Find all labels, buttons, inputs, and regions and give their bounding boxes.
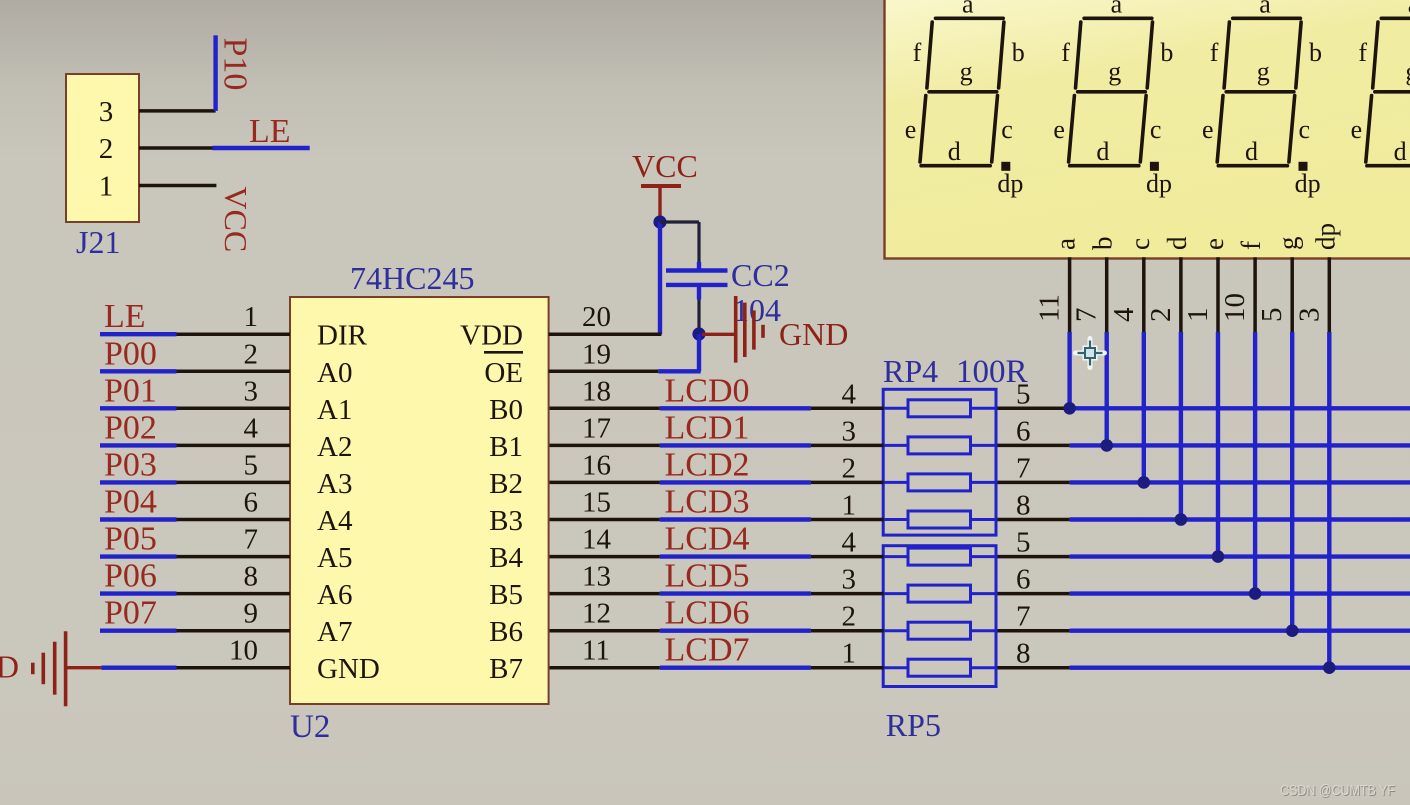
U2 pin 12 stub: [549, 629, 660, 633]
resistor R2 of RP4/RP5: [883, 437, 996, 454]
wire GND net blue: [101, 666, 176, 670]
svg-text:P06: P06: [104, 558, 157, 595]
U2 pin 13 stub: [549, 592, 660, 596]
svg-text:GND: GND: [317, 653, 380, 685]
svg-text:LCD2: LCD2: [665, 446, 750, 483]
svg-text:2: 2: [842, 601, 857, 633]
svg-text:4: 4: [842, 378, 857, 410]
wire RP output row 8 blue net: [1070, 666, 1410, 670]
digit 3 decimal point: [1299, 162, 1308, 171]
resistor R1 of RP4/RP5: [883, 400, 996, 417]
svg-text:1: 1: [1182, 308, 1214, 323]
svg-text:74HC245: 74HC245: [350, 260, 474, 296]
wire RP output row 1 blue net: [1070, 406, 1410, 410]
resistor R7 of RP4/RP5: [883, 622, 996, 639]
RP input pin stub row 7: [811, 629, 884, 633]
wire RP output row 7 black stub: [997, 629, 1069, 633]
svg-text:6: 6: [1016, 415, 1031, 447]
svg-text:P00: P00: [104, 335, 157, 372]
svg-text:dp: dp: [997, 169, 1023, 198]
svg-text:8: 8: [1016, 490, 1031, 522]
svg-text:DIR: DIR: [317, 320, 368, 352]
digit 2 decimal point: [1150, 162, 1159, 171]
svg-text:c: c: [1125, 238, 1155, 250]
svg-text:LCD7: LCD7: [665, 632, 750, 669]
svg-text:7: 7: [1016, 601, 1031, 633]
U2 pin 18 stub: [549, 407, 660, 411]
svg-text:3: 3: [842, 564, 857, 596]
svg-text:A6: A6: [317, 579, 352, 611]
wire net P01: [100, 406, 177, 410]
wire RP output row 2 blue net: [1070, 443, 1410, 447]
svg-text:P07: P07: [104, 595, 157, 632]
svg-text:2: 2: [842, 452, 857, 484]
svg-text:11: 11: [1034, 294, 1066, 322]
wire net P00: [100, 369, 177, 373]
wire LCD5 net blue: [660, 591, 811, 595]
digit 4 segment a: [1381, 16, 1410, 20]
wire RP output row 5 black stub: [997, 555, 1069, 559]
wire RP output row 7 blue net: [1070, 629, 1410, 633]
digit 4 segment e: [1366, 96, 1372, 163]
U2 pin 19 stub: [549, 370, 659, 374]
svg-text:LCD5: LCD5: [665, 558, 750, 595]
wire segment net seg-c vertical: [1142, 332, 1146, 482]
resistor R8 of RP4/RP5: [883, 659, 996, 676]
junction dot row 7: [1286, 624, 1299, 637]
svg-text:f: f: [1061, 38, 1070, 67]
display pin stub e: [1216, 257, 1220, 332]
wire segment net seg-e vertical: [1216, 332, 1220, 557]
svg-text:15: 15: [582, 487, 611, 519]
svg-text:B6: B6: [489, 616, 523, 648]
resistor R5 of RP4/RP5: [883, 548, 996, 565]
digit 3 segment c: [1289, 96, 1295, 163]
svg-text:20: 20: [582, 301, 611, 333]
svg-text:8: 8: [244, 561, 259, 593]
svg-text:c: c: [1299, 115, 1311, 144]
svg-text:g: g: [1257, 57, 1270, 86]
svg-text:P04: P04: [104, 484, 157, 521]
svg-text:5: 5: [1016, 378, 1031, 410]
svg-text:LE: LE: [104, 298, 146, 335]
7-seg digit 2: [1053, 0, 1173, 198]
svg-text:VDD: VDD: [460, 320, 523, 352]
U2 left pin 6 stub: [177, 518, 291, 522]
svg-text:P10: P10: [217, 38, 254, 91]
digit 1 segment a: [936, 16, 1004, 20]
svg-text:A5: A5: [317, 542, 352, 574]
power symbol VCC: [641, 186, 681, 216]
digit 1 segment f: [927, 22, 932, 88]
wire segment net seg-g vertical: [1290, 332, 1294, 631]
wire RP output row 1 black stub: [997, 407, 1069, 411]
svg-text:a: a: [1259, 0, 1271, 19]
svg-text:J21: J21: [76, 224, 120, 260]
digit 3 segment f: [1224, 22, 1229, 88]
wire VCC to U2 pin20 vertical: [658, 222, 662, 334]
svg-text:GND: GND: [779, 316, 848, 352]
display module box DS1: [885, 0, 1410, 259]
svg-text:B3: B3: [489, 505, 523, 537]
svg-text:P02: P02: [104, 409, 157, 446]
resistor pack RP5 box: [883, 546, 996, 687]
wire junction to U2 pin19: [697, 334, 701, 371]
svg-text:LCD4: LCD4: [665, 521, 750, 558]
wire net P03: [100, 480, 177, 484]
wire junction to ground: [702, 333, 734, 336]
wire RP output row 6 black stub: [997, 592, 1069, 596]
digit 2 segment b: [1147, 22, 1152, 88]
svg-text:3: 3: [99, 96, 114, 128]
svg-text:2: 2: [1145, 308, 1177, 323]
wire RP output row 4 black stub: [997, 518, 1069, 522]
svg-text:LCD3: LCD3: [665, 484, 750, 521]
svg-text:7: 7: [1016, 452, 1031, 484]
U2 pin 14 stub: [549, 555, 660, 559]
digit 3 segment b: [1296, 22, 1301, 88]
svg-text:3: 3: [1293, 308, 1325, 323]
junction dot row 8: [1323, 661, 1336, 674]
U2 left pin 10 stub: [177, 666, 291, 670]
digit 4 segment g: [1375, 90, 1410, 94]
svg-text:1: 1: [99, 171, 114, 203]
svg-text:dp: dp: [1146, 169, 1172, 198]
U2 left pin 5 stub: [177, 481, 291, 485]
junction dot row 3: [1138, 476, 1151, 489]
junction dot row 5: [1212, 550, 1225, 563]
RP input pin stub row 1: [811, 407, 884, 411]
junction dot at CC2 bottom: [692, 327, 705, 340]
svg-text:c: c: [1001, 115, 1013, 144]
wire RP output row 3 blue net: [1070, 480, 1410, 484]
svg-text:5: 5: [1256, 308, 1288, 323]
wire CC2 bottom to junction: [697, 287, 701, 328]
RP input pin stub row 4: [811, 518, 884, 522]
U2 left pin 4 stub: [177, 444, 291, 448]
svg-text:B4: B4: [489, 542, 523, 574]
display pin stub a: [1068, 257, 1072, 332]
RP input pin stub row 6: [811, 592, 884, 596]
svg-text:VCC: VCC: [632, 148, 698, 184]
svg-text:LCD1: LCD1: [665, 409, 750, 446]
U2 pin 17 stub: [549, 444, 660, 448]
display pin stub g: [1290, 257, 1294, 332]
display pin stub f: [1253, 257, 1257, 332]
svg-text:B0: B0: [489, 394, 523, 426]
RP input pin stub row 5: [811, 555, 884, 559]
svg-text:13: 13: [582, 561, 611, 593]
U2 pin 20 stub: [549, 332, 662, 336]
svg-text:dp: dp: [1295, 169, 1321, 198]
wire LCD3 net blue: [660, 517, 811, 521]
svg-text:A3: A3: [317, 468, 352, 500]
wire RP output row 5 blue net: [1070, 554, 1410, 558]
svg-text:LCD6: LCD6: [665, 595, 750, 632]
U2 left pin 9 stub: [177, 629, 291, 633]
svg-text:CC2: CC2: [731, 257, 790, 293]
J21 pin 3 stub: [139, 109, 216, 113]
7-seg digit 3: [1202, 0, 1322, 198]
svg-text:16: 16: [582, 449, 611, 481]
svg-text:18: 18: [582, 375, 611, 407]
svg-text:9: 9: [244, 598, 259, 630]
svg-text:6: 6: [1016, 564, 1031, 596]
svg-text:10: 10: [229, 635, 258, 667]
digit 1 segment b: [999, 22, 1004, 88]
ground symbol at CC2: [736, 296, 763, 363]
U2 left pin 8 stub: [177, 592, 291, 596]
svg-text:e: e: [1053, 115, 1065, 144]
digit 2 segment c: [1140, 96, 1146, 163]
svg-text:d: d: [1245, 137, 1258, 166]
U2 left pin 7 stub: [177, 555, 291, 559]
svg-text:g: g: [960, 57, 973, 86]
svg-text:17: 17: [582, 412, 611, 444]
7-seg digit 1: [905, 0, 1025, 198]
J21 pin 1 stub: [139, 184, 216, 188]
svg-text:2: 2: [99, 133, 114, 165]
digit 1 segment c: [992, 96, 998, 163]
digit 4 segment d: [1367, 164, 1410, 168]
svg-text:f: f: [1236, 241, 1266, 250]
svg-text:LCD0: LCD0: [665, 372, 750, 409]
wire LCD2 net blue: [660, 480, 811, 484]
svg-text:LE: LE: [249, 113, 291, 150]
digit 3 segment a: [1233, 16, 1301, 20]
U2 pin 15 stub: [549, 518, 660, 522]
svg-text:RP4: RP4: [883, 353, 938, 389]
digit 2 segment a: [1084, 16, 1152, 20]
digit 1 segment g: [929, 90, 997, 94]
svg-text:104: 104: [733, 292, 781, 328]
U2 left pin 1 stub: [177, 332, 291, 336]
digit 3 segment g: [1226, 90, 1294, 94]
svg-text:a: a: [1111, 0, 1123, 19]
wire RP output row 4 blue net: [1070, 517, 1410, 521]
svg-text:g: g: [1405, 57, 1410, 86]
wire net P02: [100, 443, 177, 447]
digit 2 segment g: [1078, 90, 1146, 94]
digit 1 segment e: [920, 96, 926, 163]
svg-text:10: 10: [1219, 293, 1251, 322]
display pin stub b: [1105, 257, 1109, 332]
svg-text:2: 2: [244, 338, 259, 370]
RP input pin stub row 8: [811, 666, 884, 670]
RP input pin stub row 2: [811, 444, 884, 448]
svg-text:a: a: [962, 0, 974, 19]
wire LCD0 net blue: [660, 406, 811, 410]
svg-text:OE: OE: [484, 357, 523, 389]
wire net P10 vertical: [213, 35, 217, 111]
svg-text:f: f: [913, 38, 922, 67]
wire segment net seg-dp vertical: [1327, 332, 1331, 668]
svg-text:e: e: [905, 115, 917, 144]
svg-text:4: 4: [842, 527, 857, 559]
svg-text:P05: P05: [104, 521, 157, 558]
svg-text:b: b: [1088, 237, 1118, 251]
wire LCD6 net blue: [660, 629, 811, 633]
svg-text:6: 6: [244, 487, 259, 519]
wire RP output row 3 black stub: [997, 481, 1069, 485]
svg-text:A0: A0: [317, 357, 352, 389]
display pin stub dp: [1328, 257, 1332, 332]
svg-text:1: 1: [842, 490, 857, 522]
svg-text:A4: A4: [317, 505, 353, 537]
OE overline: [484, 351, 523, 354]
svg-text:GND: GND: [0, 649, 19, 685]
svg-text:U2: U2: [290, 709, 330, 745]
wire net P05: [100, 554, 177, 558]
wire segment net seg-b vertical: [1104, 332, 1108, 445]
svg-text:B1: B1: [489, 431, 523, 463]
svg-text:d: d: [1096, 137, 1109, 166]
display pin stub c: [1142, 257, 1146, 332]
resistor R3 of RP4/RP5: [883, 474, 996, 491]
svg-text:5: 5: [1016, 527, 1031, 559]
wire net P06: [100, 591, 177, 595]
svg-text:A1: A1: [317, 394, 352, 426]
U2 left pin 3 stub: [177, 407, 291, 411]
svg-text:12: 12: [582, 598, 611, 630]
svg-text:19: 19: [582, 338, 611, 370]
junction dot row 1: [1063, 402, 1076, 415]
wire segment net seg-f vertical: [1253, 332, 1257, 594]
svg-text:14: 14: [582, 524, 612, 556]
display pin stub d: [1179, 257, 1183, 332]
svg-text:3: 3: [842, 415, 857, 447]
wire net LE at J21: [213, 146, 310, 150]
svg-text:VCC: VCC: [218, 186, 254, 252]
resistor R4 of RP4/RP5: [883, 511, 996, 528]
svg-text:7: 7: [244, 524, 259, 556]
svg-text:8: 8: [1016, 638, 1031, 670]
junction dot at VCC: [653, 215, 666, 228]
svg-text:b: b: [1160, 38, 1173, 67]
wire LCD4 net blue: [660, 554, 811, 558]
J21 pin 2 stub: [139, 146, 213, 150]
svg-text:4: 4: [244, 412, 259, 444]
svg-text:P01: P01: [104, 372, 157, 409]
wire RP output row 2 black stub: [997, 444, 1069, 448]
wire net to pin 19: [658, 369, 700, 373]
U2 left pin 2 stub: [177, 370, 291, 374]
mouse cursor crosshair: [1076, 339, 1105, 368]
svg-text:g: g: [1108, 57, 1121, 86]
digit 3 segment d: [1218, 164, 1287, 168]
svg-text:CSDN @CUMTB YF: CSDN @CUMTB YF: [1280, 782, 1395, 799]
digit 1 segment d: [921, 164, 990, 168]
svg-text:4: 4: [1108, 307, 1140, 322]
connector J21 body: [66, 74, 139, 222]
wire net P04: [100, 517, 177, 521]
svg-text:7: 7: [1071, 308, 1103, 323]
svg-text:f: f: [1210, 38, 1219, 67]
U2 pin 11 stub: [549, 666, 660, 670]
digit 2 segment f: [1076, 22, 1081, 88]
svg-text:f: f: [1358, 38, 1367, 67]
digit 2 segment d: [1070, 164, 1139, 168]
svg-text:e: e: [1199, 238, 1229, 250]
wire LCD7 net blue: [660, 666, 811, 670]
wire segment net seg-d vertical: [1179, 332, 1183, 520]
svg-text:e: e: [1202, 115, 1214, 144]
digit 3 segment e: [1217, 96, 1223, 163]
digit 4 segment f: [1373, 22, 1378, 88]
svg-text:a: a: [1051, 238, 1081, 250]
svg-text:B7: B7: [489, 653, 523, 685]
RP input pin stub row 3: [811, 481, 884, 485]
svg-text:A7: A7: [317, 616, 352, 648]
svg-text:e: e: [1351, 115, 1363, 144]
svg-text:c: c: [1150, 115, 1162, 144]
svg-text:RP5: RP5: [886, 707, 941, 743]
svg-text:B5: B5: [489, 579, 523, 611]
wire net P07: [100, 629, 177, 633]
capacitor CC2: [666, 271, 728, 285]
svg-text:B2: B2: [489, 468, 523, 500]
U2 pin 16 stub: [549, 481, 660, 485]
wire RP output row 8 black stub: [997, 666, 1069, 670]
svg-text:g: g: [1273, 237, 1303, 251]
svg-text:b: b: [1309, 38, 1322, 67]
svg-text:3: 3: [244, 375, 259, 407]
wire segment net seg-a vertical: [1067, 332, 1071, 408]
IC U2 74HC245 body: [290, 297, 549, 704]
wire RP output row 6 blue net: [1070, 591, 1410, 595]
svg-text:A2: A2: [317, 431, 352, 463]
junction dot row 6: [1249, 587, 1262, 600]
svg-text:dp: dp: [1310, 223, 1340, 250]
junction dot row 2: [1100, 439, 1113, 452]
svg-text:b: b: [1012, 38, 1025, 67]
svg-text:1: 1: [244, 301, 259, 333]
svg-text:1: 1: [842, 638, 857, 670]
digit 2 segment e: [1069, 96, 1075, 163]
resistor R6 of RP4/RP5: [883, 585, 996, 602]
wire LCD1 net blue: [660, 443, 811, 447]
7-seg digit 4: [1351, 0, 1410, 198]
ground symbol left: [33, 631, 102, 706]
wire net LE: [100, 332, 177, 336]
junction dot row 4: [1175, 513, 1188, 526]
svg-text:P03: P03: [104, 446, 157, 483]
svg-text:11: 11: [582, 635, 610, 667]
svg-text:d: d: [948, 137, 961, 166]
svg-text:d: d: [1162, 236, 1192, 250]
digit 1 decimal point: [1001, 162, 1010, 171]
resistor pack RP4 box: [883, 389, 996, 535]
wire VCC to CC2 top: [660, 222, 699, 269]
svg-text:d: d: [1394, 137, 1407, 166]
svg-text:5: 5: [244, 449, 259, 481]
